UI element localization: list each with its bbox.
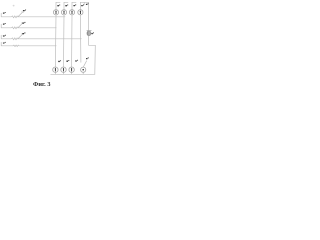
- svg-text:Фиг. 3: Фиг. 3: [33, 81, 50, 88]
